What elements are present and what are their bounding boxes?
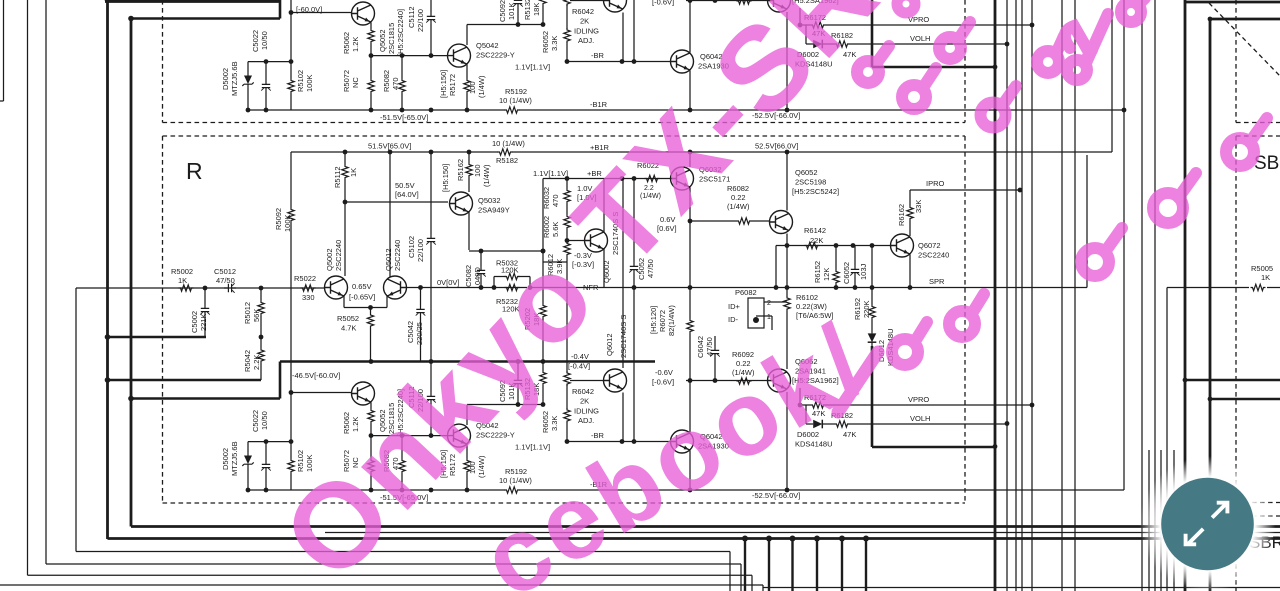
wire thick left bus 1	[106, 0, 109, 539]
right bus 1155	[1154, 0, 1156, 591]
wire SPR out	[1166, 288, 1168, 591]
speaker drop wires	[742, 536, 748, 542]
right block inner edge	[1209, 19, 1212, 591]
right bus 1022	[1021, 0, 1023, 591]
wire 52.5V rail feed	[1111, 0, 1113, 152]
watermark thai curls right middle	[1081, 228, 1122, 276]
dashed R channel box bottom	[163, 502, 966, 504]
right bus 1062	[1061, 0, 1063, 591]
expand button halo	[1140, 456, 1276, 591]
expand button arrows	[1186, 503, 1228, 545]
svg-text:R: R	[186, 158, 203, 184]
right bus 1075	[1074, 0, 1076, 591]
svg-text:R5005: R5005	[1251, 264, 1273, 273]
expand button circle	[1161, 478, 1254, 571]
wire left bus 2	[45, 0, 47, 564]
right block thick edge	[1184, 0, 1187, 591]
right block wire y399	[1210, 398, 1280, 401]
right block dashed boundary lower	[1252, 502, 1280, 504]
wire left edge small L	[3, 0, 5, 101]
watermark thai glyph B3	[1067, 50, 1092, 80]
right block top edge	[1185, 1, 1280, 4]
wire thick left bus 2	[130, 18, 133, 527]
wire input bus	[75, 288, 77, 552]
R channel	[76, 139, 1124, 502]
wire -52.5V rail riser	[1123, 0, 1125, 490]
watermark thai glyph B2	[1037, 36, 1064, 73]
right bus 995 thick	[994, 0, 997, 591]
wire top bar	[105, 0, 280, 3]
right bus 1142	[1141, 0, 1143, 591]
dashed L/R channel boundary upper	[163, 122, 966, 124]
right bus 1016	[1015, 0, 1017, 591]
wire bottom edge line	[0, 584, 763, 586]
svg-text:1K: 1K	[1261, 273, 1270, 282]
wire thin mid bus	[325, 532, 1280, 534]
right short verticals	[1148, 450, 1150, 591]
watermark thai glyph B4	[1065, 14, 1108, 54]
resistor R5005 1K	[1251, 284, 1266, 290]
watermark thai glyph B5	[1121, 0, 1145, 22]
watermark partial glyph after R	[897, 0, 915, 13]
watermark thai glyphs after slash	[838, 352, 878, 412]
right bus 1032	[1031, 0, 1033, 591]
dashed R channel box left	[162, 0, 164, 123]
L channel (clipped)	[76, 0, 1124, 122]
right block dashed border	[1235, 0, 1237, 123]
right bus 1007	[1006, 0, 1008, 591]
watermark thai cluster mid top	[857, 46, 889, 83]
dashed R channel box top	[163, 135, 966, 137]
right block wire y380	[1185, 379, 1280, 382]
watermark thai glyph B1	[981, 86, 1017, 128]
wire left bus 1	[27, 0, 29, 575]
dashed diagonal	[1209, 3, 1280, 76]
dashed R channel box right	[964, 0, 966, 123]
